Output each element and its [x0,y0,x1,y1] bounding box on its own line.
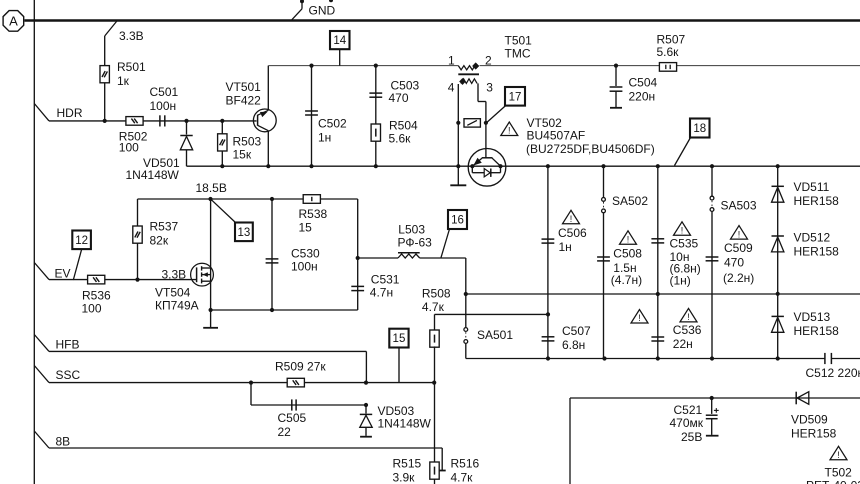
svg-text:1N4148W: 1N4148W [126,168,180,182]
svg-text:T501: T501 [505,33,533,47]
svg-text:(BU2725DF,BU4506DF): (BU2725DF,BU4506DF) [526,142,655,156]
svg-text:1к: 1к [117,74,130,88]
svg-text:R516: R516 [451,457,480,471]
svg-text:100: 100 [82,302,102,316]
svg-text:TMC: TMC [505,46,531,60]
svg-text:82к: 82к [150,234,169,248]
svg-text:4.7к: 4.7к [422,300,445,314]
svg-text:22н: 22н [673,337,693,351]
svg-text:3.3В: 3.3В [162,268,187,282]
svg-text:КП749А: КП749А [155,299,199,313]
svg-text:SSC: SSC [56,368,81,382]
svg-text:VD513: VD513 [794,310,831,324]
svg-text:15к: 15к [233,148,252,162]
svg-text:GND: GND [309,4,336,18]
svg-text:(2.2н): (2.2н) [723,271,754,285]
svg-text:C507: C507 [562,324,591,338]
svg-text:470: 470 [389,91,409,105]
svg-text:!: ! [687,312,690,322]
svg-text:3.3В: 3.3В [119,29,144,43]
svg-text:15: 15 [299,221,313,235]
svg-text:R504: R504 [389,118,418,132]
svg-text:C506: C506 [558,226,587,240]
svg-text:5.6к: 5.6к [389,131,412,145]
svg-text:A: A [9,14,18,29]
svg-text:16: 16 [451,215,464,227]
svg-text:14: 14 [333,35,346,47]
svg-text:18.5В: 18.5В [196,181,227,195]
svg-text:4.7н: 4.7н [370,286,393,300]
svg-text:1N4148W: 1N4148W [378,417,432,431]
svg-text:3.9к: 3.9к [393,471,416,484]
svg-text:(1н): (1н) [670,273,691,287]
svg-text:!: ! [627,235,630,245]
svg-text:100н: 100н [150,99,177,113]
svg-text:VD509: VD509 [791,413,828,427]
svg-text:17: 17 [509,91,522,103]
svg-text:1н: 1н [318,131,331,145]
svg-text:SA503: SA503 [721,199,757,213]
svg-text:HER158: HER158 [794,245,840,259]
svg-text:C508: C508 [613,247,642,261]
svg-text:2: 2 [485,53,492,67]
svg-text:!: ! [681,226,684,236]
svg-text:SA502: SA502 [612,194,648,208]
svg-text:!: ! [738,229,741,239]
svg-text:!: ! [837,450,840,460]
svg-text:5.6к: 5.6к [657,45,680,59]
svg-text:C521: C521 [674,403,703,417]
svg-text:470: 470 [724,256,744,270]
svg-text:220н: 220н [629,90,656,104]
svg-text:VT501: VT501 [226,80,262,94]
svg-text:R508: R508 [422,287,451,301]
svg-text:C502: C502 [318,117,347,131]
svg-text:1: 1 [448,53,455,67]
svg-text:25В: 25В [681,430,702,444]
svg-text:C530: C530 [291,246,320,260]
svg-text:C504: C504 [629,76,658,90]
svg-text:18: 18 [693,123,706,135]
svg-text:C536: C536 [673,323,702,337]
svg-text:РЕТ-40-03: РЕТ-40-03 [806,478,860,484]
svg-text:R538: R538 [299,207,328,221]
svg-text:EV: EV [55,266,71,280]
svg-text:BF422: BF422 [226,93,262,107]
svg-text:12: 12 [75,235,88,247]
svg-text:8В: 8В [56,434,71,448]
svg-text:470мк: 470мк [670,416,704,430]
svg-text:R501: R501 [117,60,146,74]
svg-text:R537: R537 [150,220,179,234]
svg-text:!: ! [638,313,641,323]
svg-text:!: ! [570,214,573,224]
svg-text:100: 100 [119,140,139,154]
svg-text:13: 13 [238,227,251,239]
svg-text:15: 15 [393,333,406,345]
svg-text:3: 3 [486,81,493,95]
svg-text:HER158: HER158 [794,194,840,208]
svg-text:HFB: HFB [56,338,80,352]
svg-text:HDR: HDR [57,106,83,120]
svg-text:L503: L503 [398,223,425,237]
svg-text:C509: C509 [724,241,753,255]
svg-text:BU4507AF: BU4507AF [527,129,586,143]
svg-text:!: ! [508,126,511,136]
svg-text:(4.7н): (4.7н) [611,273,642,287]
svg-text:R509 27к: R509 27к [275,360,326,374]
svg-text:VD512: VD512 [794,231,831,245]
svg-text:R536: R536 [82,288,111,302]
svg-text:4.7к: 4.7к [451,471,474,484]
svg-text:РФ-63: РФ-63 [398,236,433,250]
svg-text:R503: R503 [233,135,262,149]
svg-text:100н: 100н [291,260,318,274]
svg-text:HER158: HER158 [794,324,840,338]
svg-text:C505: C505 [278,411,307,425]
svg-text:6.8н: 6.8н [562,338,585,352]
svg-text:C512 220н: C512 220н [806,366,860,380]
svg-text:1н: 1н [559,240,572,254]
svg-text:HER158: HER158 [791,427,837,441]
svg-text:VT504: VT504 [155,286,191,300]
svg-text:4: 4 [448,81,455,95]
svg-text:R515: R515 [393,457,422,471]
svg-text:C535: C535 [670,237,699,251]
svg-text:VD511: VD511 [794,180,830,194]
svg-text:C501: C501 [150,85,179,99]
svg-text:SA501: SA501 [477,328,513,342]
svg-text:22: 22 [278,425,292,439]
